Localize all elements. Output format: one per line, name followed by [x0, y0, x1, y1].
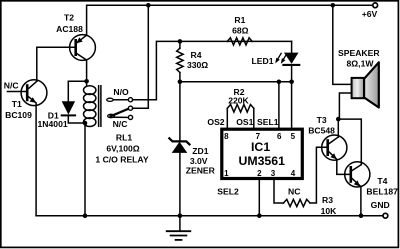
node T3 collector / speaker junction: [336, 117, 341, 122]
svg-text:+6V: +6V: [362, 9, 378, 19]
wire top +6V rail: [87, 5, 375, 35]
svg-text:AC188: AC188: [56, 24, 83, 34]
resistor R3: [284, 199, 311, 206]
node +6V terminal: [373, 3, 378, 8]
transistor T4 (NPN BEL187): [345, 162, 370, 216]
svg-text:NC: NC: [288, 187, 300, 197]
wire relay arm to +6V rail: [133, 5, 149, 108]
wire ground rail: [36, 215, 385, 217]
svg-text:RL1: RL1: [116, 133, 132, 143]
svg-text:BEL187: BEL187: [366, 187, 398, 197]
node pin6 junction: [277, 80, 282, 85]
wire speaker bottom terminal: [339, 93, 351, 119]
svg-text:SEL2: SEL2: [217, 187, 239, 197]
svg-text:R4: R4: [191, 50, 202, 60]
node coil bottom / D1 junction: [83, 121, 88, 126]
svg-text:8: 8: [224, 132, 229, 141]
node T4 emitter rail junction: [359, 213, 364, 218]
svg-text:OS1: OS1: [236, 117, 253, 127]
wire T1 collector to T2 base: [37, 47, 76, 81]
svg-text:R3: R3: [322, 195, 333, 205]
node pin2 rail junction: [257, 213, 262, 218]
wire junction to D1 top: [68, 81, 86, 101]
svg-text:T1: T1: [12, 99, 22, 109]
relay N/O fixed contact: [107, 98, 133, 102]
node junction top rail to speaker: [331, 3, 336, 8]
svg-text:10K: 10K: [321, 206, 338, 216]
svg-text:2: 2: [257, 169, 262, 178]
node R4 bottom / ZD1 junction: [178, 80, 183, 85]
wire IC pin3 to R3: [274, 179, 284, 204]
wire speaker top terminal: [333, 5, 352, 84]
wire relay N/O contact to alarm supply node: [133, 41, 292, 99]
transistor T2 (PNP AC188): [70, 35, 96, 81]
svg-text:N/O: N/O: [113, 87, 129, 97]
svg-text:ZENER: ZENER: [186, 166, 216, 176]
wire R3 to T3 base: [310, 147, 328, 203]
svg-text:4: 4: [291, 169, 296, 178]
node GND terminal: [383, 213, 388, 218]
wire IC pin2 to ground rail: [258, 179, 260, 216]
svg-text:1N4001: 1N4001: [38, 119, 68, 129]
relay core bars: [99, 86, 101, 127]
svg-text:68Ω: 68Ω: [232, 25, 249, 35]
wire N/C input to T1 base: [7, 91, 27, 93]
svg-text:330Ω: 330Ω: [187, 60, 208, 70]
svg-text:GND: GND: [371, 200, 390, 210]
svg-text:SPEAKER: SPEAKER: [338, 48, 380, 58]
svg-text:1 C/O RELAY: 1 C/O RELAY: [95, 154, 148, 164]
speaker SPEAKER 8ohm 1W: [352, 62, 379, 107]
svg-text:LED1: LED1: [252, 56, 274, 66]
transistor T1 (NPN BC109): [21, 80, 47, 216]
svg-text:220K: 220K: [228, 95, 249, 105]
resistor R1: [227, 38, 252, 45]
svg-text:T2: T2: [64, 13, 74, 23]
svg-text:ZD1: ZD1: [192, 146, 208, 156]
svg-text:SEL1: SEL1: [257, 117, 279, 127]
transistor T3 (NPN BC548): [322, 135, 351, 174]
wire pin5 riser: [291, 82, 293, 128]
relay pole arm: [108, 106, 133, 118]
op IC1 UM3561 body: [222, 129, 302, 178]
svg-text:BC109: BC109: [5, 110, 32, 120]
svg-text:6: 6: [277, 132, 282, 141]
svg-text:BC548: BC548: [308, 125, 335, 135]
wire 3V zener supply node: [180, 81, 292, 83]
node R4 top junction: [178, 39, 183, 44]
ground earth symbol: [167, 216, 191, 240]
diode D1 1N4001: [62, 101, 85, 123]
relay RL1 coil: [84, 81, 96, 126]
svg-text:R1: R1: [234, 15, 245, 25]
node pin5/LED junction: [289, 80, 294, 85]
svg-text:UM3561: UM3561: [238, 154, 285, 168]
LED1: [275, 41, 299, 81]
svg-text:6V,100Ω: 6V,100Ω: [106, 144, 139, 154]
svg-text:N/C: N/C: [113, 119, 128, 129]
svg-text:T4: T4: [377, 176, 387, 186]
wire T3 collector riser: [337, 119, 339, 137]
resistor R4: [177, 41, 183, 81]
node D1 rail junction: [83, 213, 88, 218]
svg-text:T3: T3: [317, 115, 327, 125]
wire pin6 riser: [278, 82, 280, 128]
svg-text:5: 5: [291, 132, 296, 141]
svg-text:IC1: IC1: [251, 140, 270, 154]
svg-text:3.0V: 3.0V: [190, 156, 208, 166]
zener diode ZD1: [169, 82, 189, 216]
node junction top rail to relay arm: [146, 3, 151, 8]
svg-text:OS2: OS2: [207, 117, 224, 127]
resistor R2: [227, 105, 254, 128]
svg-text:N/C: N/C: [4, 80, 19, 90]
wire coil junction to ground rail: [84, 123, 86, 216]
node ZD1 rail junction: [178, 213, 183, 218]
svg-text:8Ω,1W: 8Ω,1W: [347, 59, 375, 69]
svg-text:3: 3: [271, 169, 276, 178]
wire junction to T4 collector: [338, 119, 361, 165]
node T2 collector / D1 / relay coil junction: [84, 79, 89, 84]
relay N/C fixed contact: [114, 115, 133, 119]
svg-text:1: 1: [224, 169, 229, 178]
